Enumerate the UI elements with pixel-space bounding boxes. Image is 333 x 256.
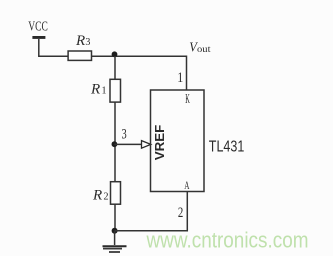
wire VCC down and right to R3	[39, 39, 68, 56]
wire corner down to pin 1	[186, 56, 188, 91]
arrow into VREF pin	[142, 141, 151, 149]
svg-text:VREF: VREF	[152, 125, 167, 161]
junction node dot (R1 tap)	[112, 51, 118, 57]
svg-text:R: R	[90, 82, 100, 98]
IC U1 TL431 body	[151, 90, 205, 192]
svg-text:1: 1	[177, 70, 183, 86]
node 3 junction dot	[112, 141, 118, 147]
svg-text:R: R	[92, 187, 102, 203]
wire junction down to R1	[114, 56, 116, 80]
VCC terminal bar	[32, 36, 45, 39]
wire R2 down to ground junction	[114, 204, 116, 231]
ground junction dot	[112, 228, 118, 234]
ground bar 2	[103, 248, 122, 250]
svg-text:2: 2	[104, 191, 109, 202]
wire R1 to R2 through node 3	[114, 102, 116, 182]
svg-text:2: 2	[178, 205, 183, 221]
svg-text:3: 3	[122, 127, 127, 143]
wire ground junction to pin 2	[115, 192, 188, 231]
svg-text:R: R	[75, 33, 85, 49]
svg-text:1: 1	[102, 86, 107, 97]
ground stub wire	[114, 231, 116, 245]
wire node 3 to VREF arrow	[114, 143, 142, 145]
svg-text:K: K	[185, 92, 190, 107]
svg-text:3: 3	[85, 37, 90, 48]
resistor R3	[68, 51, 91, 60]
svg-text:out: out	[197, 45, 211, 55]
wire R3 to top-right corner	[92, 55, 187, 57]
ground bar 3	[109, 251, 120, 253]
svg-text:TL431: TL431	[209, 138, 245, 155]
resistor R2	[111, 182, 121, 205]
resistor R1	[110, 79, 121, 102]
svg-text:www.cntronics.com: www.cntronics.com	[146, 228, 309, 253]
svg-text:VCC: VCC	[28, 20, 48, 35]
ground bar 1	[103, 245, 127, 247]
svg-text:A: A	[184, 180, 190, 192]
